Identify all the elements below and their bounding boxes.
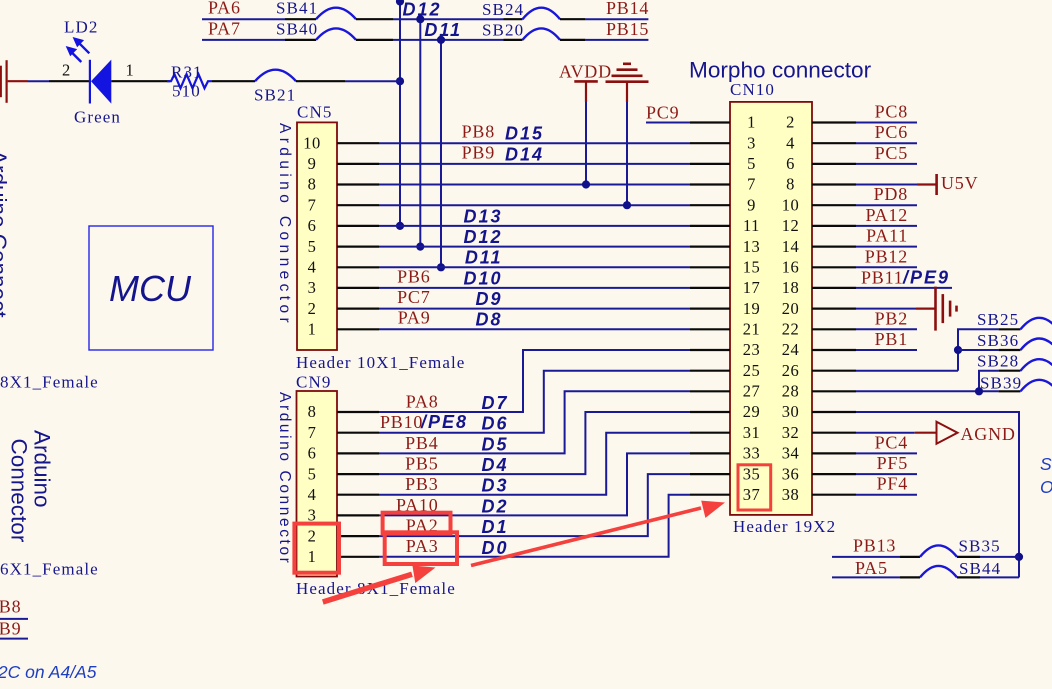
CN10 pin 35 stub xyxy=(690,473,730,475)
CN10 pin 22 stub xyxy=(812,328,856,330)
wire SB36 segment xyxy=(958,349,999,351)
svg-text:35: 35 xyxy=(743,464,761,483)
wire net D7 CN9 to CN10 xyxy=(379,350,690,412)
wire net PA12 xyxy=(856,225,917,227)
svg-text:PB9: PB9 xyxy=(462,142,495,162)
svg-text:SB35: SB35 xyxy=(959,537,1001,556)
pin stub SB20 left xyxy=(504,39,523,41)
wire net PA5 xyxy=(832,576,900,578)
power ground symbol bars xyxy=(606,64,649,82)
svg-text:PB4: PB4 xyxy=(405,433,438,453)
CN10 pin 29 stub xyxy=(690,411,730,413)
junction dot D12 vertical at CN5 pin 5 row xyxy=(416,243,424,251)
wire SB28 segment xyxy=(979,371,999,392)
wire net PB14 segment xyxy=(585,18,648,20)
wire vertical net D12 xyxy=(419,19,421,246)
CN5 pin 5 stub xyxy=(337,246,379,248)
annotation box PA3 xyxy=(385,532,457,564)
wire to power ground xyxy=(856,308,916,310)
svg-text:1: 1 xyxy=(308,320,317,339)
CN10 pin 38 stub xyxy=(812,494,856,496)
svg-text:Green: Green xyxy=(74,108,121,127)
power ground stem xyxy=(626,82,628,102)
svg-text:D10: D10 xyxy=(463,268,502,288)
svg-text:D3: D3 xyxy=(481,476,508,496)
CN10 pin 20 stub xyxy=(812,308,856,310)
svg-text:14: 14 xyxy=(782,237,800,256)
CN10 pin 13 stub xyxy=(690,246,730,248)
svg-text:D4: D4 xyxy=(481,455,508,475)
svg-text:PC5: PC5 xyxy=(875,143,908,163)
wire CN10 pin27 row xyxy=(856,390,999,392)
svg-text:8: 8 xyxy=(308,175,317,194)
junction dot D11 vertical at CN5 pin 4 row xyxy=(437,263,445,271)
svg-text:D0: D0 xyxy=(481,538,508,558)
svg-text:19: 19 xyxy=(743,299,761,318)
CN5 pin 7 stub xyxy=(337,204,379,206)
wire vertical net D13 xyxy=(399,0,401,226)
svg-text:Arduino Connector: Arduino Connector xyxy=(276,392,293,565)
svg-text:U5V: U5V xyxy=(941,173,978,193)
CN10 pin 26 stub xyxy=(812,370,856,372)
wire net D0 CN9 to CN10 xyxy=(379,495,690,557)
svg-text:PC6: PC6 xyxy=(875,122,908,142)
svg-text:Arduino Connect: Arduino Connect xyxy=(0,150,11,318)
CN5 pin 3 stub xyxy=(337,287,379,289)
wire net PD8 xyxy=(856,204,917,206)
CN10 pin 23 stub xyxy=(690,349,730,351)
svg-text:29: 29 xyxy=(743,402,761,421)
CN10 pin 14 stub xyxy=(812,246,856,248)
pin stub SB39 xyxy=(999,390,1021,392)
LED LD2 cathode bar xyxy=(89,60,91,104)
svg-text:17: 17 xyxy=(743,278,761,297)
pin stub SB24 right xyxy=(560,18,585,20)
wire net PB1 xyxy=(856,349,917,351)
MCU block outline xyxy=(89,226,213,350)
solder bridge SB35 arc xyxy=(920,545,957,557)
wire net PC6 xyxy=(856,142,917,144)
wire CN10 pin29 row to right rail xyxy=(856,412,1019,577)
solder bridge SB21 arc xyxy=(255,70,296,82)
LED LD2 triangle xyxy=(91,60,111,104)
solder bridge SB41 arc xyxy=(316,8,356,20)
svg-text:25: 25 xyxy=(743,361,761,380)
CN10 pin 6 stub xyxy=(812,163,856,165)
LED LD2 emission arrow 1 xyxy=(73,37,90,53)
wire ground to pin9 row xyxy=(626,102,628,205)
pin stub SB21 right xyxy=(296,80,345,82)
solder bridge SB44 arc xyxy=(920,566,957,578)
junction dot right rail at SB35 xyxy=(1015,553,1023,561)
svg-text:30: 30 xyxy=(782,402,800,421)
CN10 pin 7 stub xyxy=(690,183,730,185)
CN9 pin 6 stub xyxy=(337,452,379,454)
svg-text:PA7: PA7 xyxy=(208,18,241,38)
svg-text:PB12: PB12 xyxy=(865,246,908,266)
solder bridge SB20 arc xyxy=(523,28,561,40)
svg-text:10: 10 xyxy=(782,195,800,214)
svg-text:1: 1 xyxy=(308,547,317,566)
svg-text:5: 5 xyxy=(308,464,317,483)
solder bridge SB28 arc xyxy=(1021,359,1052,371)
svg-text:PB15: PB15 xyxy=(606,19,649,39)
power port AVDD bar xyxy=(574,80,598,83)
pin stub SB28 xyxy=(999,370,1021,372)
CN9 pin 8 stub xyxy=(337,411,379,413)
CN5 pin 9 stub xyxy=(337,163,379,165)
CN10 pin 30 stub xyxy=(812,411,856,413)
svg-text:37: 37 xyxy=(743,485,761,504)
CN10 pin 3 stub xyxy=(690,142,730,144)
wire vertical SB25/SB36 xyxy=(958,329,999,370)
CN10 pin 8 stub xyxy=(812,183,856,185)
svg-text:SB40: SB40 xyxy=(276,19,318,38)
svg-text:8: 8 xyxy=(308,402,317,421)
CN10 pin 32 stub xyxy=(812,432,856,434)
wire net PB11/PE9 xyxy=(856,287,952,289)
wire dark red to AGND xyxy=(915,432,937,434)
wire net D6 CN9 to CN10 xyxy=(379,371,690,433)
power ground symbol right xyxy=(936,287,957,331)
svg-text:510: 510 xyxy=(172,82,201,101)
svg-text:SB41: SB41 xyxy=(276,0,318,18)
svg-text:PB11: PB11 xyxy=(861,268,904,288)
svg-text:27: 27 xyxy=(743,382,761,401)
junction dot D13 vertical at CN5 pin 6 row xyxy=(396,222,404,230)
CN10 pin 9 stub xyxy=(690,204,730,206)
svg-text:LD2: LD2 xyxy=(64,18,98,37)
svg-text:12: 12 xyxy=(782,216,800,235)
wire to U5V xyxy=(856,184,917,186)
svg-text:Arduino: Arduino xyxy=(30,430,55,508)
annotation box CN10 pins 35-37 xyxy=(738,465,771,510)
svg-text:36: 36 xyxy=(782,464,800,483)
CN9 pin 1 stub xyxy=(337,556,379,558)
svg-text:PB14: PB14 xyxy=(606,0,649,18)
svg-text:24: 24 xyxy=(782,340,800,359)
svg-text:18: 18 xyxy=(782,278,800,297)
svg-text:8X1_Female: 8X1_Female xyxy=(0,373,99,392)
wire AVDD to pin7 row xyxy=(585,102,587,185)
svg-text:D6: D6 xyxy=(481,414,508,434)
power port AVDD stem xyxy=(585,81,587,102)
CN9 pin 4 stub xyxy=(337,494,379,496)
capacitor plate (cut at edge) xyxy=(0,66,2,98)
svg-text:Arduino Connector: Arduino Connector xyxy=(276,123,293,327)
svg-text:2: 2 xyxy=(786,113,795,132)
wire net PC5 xyxy=(856,163,917,165)
wire vertical net D11 xyxy=(440,40,442,267)
svg-text:2: 2 xyxy=(308,526,317,545)
svg-text:PC8: PC8 xyxy=(875,102,908,122)
wire blue segment xyxy=(28,80,49,82)
wire net D9 CN5 to CN10 xyxy=(379,266,690,268)
svg-text:D9: D9 xyxy=(475,289,502,309)
svg-text:PB10: PB10 xyxy=(380,412,423,432)
wire dark red from capacitor xyxy=(8,80,28,82)
wire to AGND xyxy=(856,432,915,434)
svg-text:D1: D1 xyxy=(481,517,508,537)
svg-text:32: 32 xyxy=(782,423,800,442)
solder bridge SB36 arc xyxy=(1021,339,1052,351)
wire net PB13 xyxy=(832,556,900,558)
wire net D12 segment xyxy=(393,18,504,20)
wire net D12 CN5 to CN10 xyxy=(379,204,690,206)
svg-text:2: 2 xyxy=(308,299,317,318)
CN10 pin 21 stub xyxy=(690,328,730,330)
svg-text:7: 7 xyxy=(308,195,317,214)
svg-text:34: 34 xyxy=(782,444,800,463)
svg-text:7: 7 xyxy=(308,423,317,442)
svg-text:D12: D12 xyxy=(463,227,502,247)
power port U5V bar xyxy=(935,174,938,195)
svg-text:PA12: PA12 xyxy=(865,205,908,225)
junction dot D13 vertical at LED wire xyxy=(396,77,404,85)
solder bridge SB25 arc xyxy=(1021,318,1052,330)
svg-text:PB5: PB5 xyxy=(405,454,438,474)
CN10 pin 34 stub xyxy=(812,452,856,454)
CN10 pin 31 stub xyxy=(690,432,730,434)
svg-text:7: 7 xyxy=(747,175,756,194)
CN10 pin 15 stub xyxy=(690,266,730,268)
svg-text:13: 13 xyxy=(743,237,761,256)
wire net D6 CN5 to CN10 xyxy=(379,328,690,330)
svg-text:PC4: PC4 xyxy=(875,432,908,452)
svg-text:38: 38 xyxy=(782,485,800,504)
svg-text:PB8: PB8 xyxy=(0,597,21,617)
CN9 pin 5 stub xyxy=(337,473,379,475)
svg-text:D15: D15 xyxy=(505,124,544,144)
wire SB21 to D13 vertical xyxy=(345,80,400,82)
junction dot ground xyxy=(623,201,631,209)
pin stub SB24 left xyxy=(504,18,523,20)
CN10 pin 17 stub xyxy=(690,287,730,289)
svg-text:Morpho connector: Morpho connector xyxy=(689,58,872,83)
pin stub SB20 right xyxy=(560,39,585,41)
svg-text:PB9: PB9 xyxy=(0,619,21,639)
connector CN5 body xyxy=(297,122,337,350)
pin stub SB35 left xyxy=(900,556,920,558)
svg-text:SB25: SB25 xyxy=(977,310,1019,329)
svg-text:3: 3 xyxy=(308,278,317,297)
wire net D14 CN5 to CN10 xyxy=(379,163,690,165)
wire LED to R31 xyxy=(111,80,170,82)
CN10 pin 37 stub xyxy=(690,494,730,496)
CN10 pin 11 stub xyxy=(690,225,730,227)
svg-text:Header 19X2: Header 19X2 xyxy=(733,517,836,536)
svg-text:26: 26 xyxy=(782,361,800,380)
svg-text:9: 9 xyxy=(308,154,317,173)
svg-text:20: 20 xyxy=(782,299,800,318)
CN10 pin 24 stub xyxy=(812,349,856,351)
wire net PA6/SB41 segment xyxy=(202,18,285,20)
wire net D13 CN5 to CN10 xyxy=(379,184,690,186)
wire net PA11 xyxy=(856,246,917,248)
wire net D11 segment xyxy=(393,39,504,41)
CN10 pin 2 stub xyxy=(812,121,856,123)
svg-text:PB6: PB6 xyxy=(397,266,430,286)
svg-text:SB36: SB36 xyxy=(977,331,1019,350)
svg-text:PA3: PA3 xyxy=(406,536,439,556)
CN10 pin 12 stub xyxy=(812,225,856,227)
svg-text:22: 22 xyxy=(782,320,800,339)
svg-text:PB1: PB1 xyxy=(875,329,908,349)
CN10 pin 25 stub xyxy=(690,370,730,372)
svg-text:D14: D14 xyxy=(505,144,544,164)
CN10 pin 28 stub xyxy=(812,390,856,392)
wire net D7 CN5 to CN10 xyxy=(379,308,690,310)
connector CN9 body xyxy=(297,391,338,577)
annotation box CN9 pins 1-2 xyxy=(294,524,339,573)
svg-text:CN5: CN5 xyxy=(297,103,332,122)
CN5 pin 1 stub xyxy=(337,328,379,330)
svg-text:21: 21 xyxy=(743,320,761,339)
CN9 pin 7 stub xyxy=(337,432,379,434)
svg-text:PF5: PF5 xyxy=(877,453,908,473)
wire net D4 CN9 to CN10 xyxy=(379,412,690,474)
wire net B8 (cut) xyxy=(0,618,28,620)
wire net D11 CN5 to CN10 xyxy=(379,225,690,227)
svg-text:AGND: AGND xyxy=(961,424,1016,444)
svg-text:6: 6 xyxy=(308,444,317,463)
svg-text:PA9: PA9 xyxy=(398,308,431,328)
capacitor plate 2 (cut at edge) xyxy=(5,60,7,103)
wire net D2 CN9 to CN10 xyxy=(379,453,690,515)
resistor R31 zigzag xyxy=(167,74,212,88)
svg-text:SB39: SB39 xyxy=(980,373,1022,392)
pin stub SB40 right xyxy=(356,39,393,41)
pin stub SB41 left xyxy=(285,18,316,20)
pin stub SB35 right xyxy=(957,556,980,558)
svg-text:CN9: CN9 xyxy=(296,373,331,392)
svg-text:PA11: PA11 xyxy=(866,226,908,246)
wire net PC4 xyxy=(856,452,917,454)
wire R31 to SB21 xyxy=(212,80,255,82)
svg-text:31: 31 xyxy=(743,423,761,442)
svg-text:4: 4 xyxy=(308,485,317,504)
svg-text:28: 28 xyxy=(782,382,800,401)
CN9 pin 2 stub xyxy=(337,535,379,537)
pin stub SB44 left xyxy=(900,576,920,578)
wire CN10 pin23 row to SB vertical xyxy=(856,370,958,372)
junction dot SB36 tap xyxy=(954,346,962,354)
junction dot top of D13 vertical xyxy=(396,0,404,6)
svg-text:CN10: CN10 xyxy=(730,80,775,99)
CN10 pin 18 stub xyxy=(812,287,856,289)
svg-text:/PE9: /PE9 xyxy=(902,268,950,288)
svg-text:6: 6 xyxy=(308,216,317,235)
wire net D15 CN5 to CN10 xyxy=(379,142,690,144)
wire net B9 (cut) xyxy=(0,638,28,640)
svg-text:AVDD: AVDD xyxy=(559,62,612,82)
svg-text:PD8: PD8 xyxy=(874,184,908,204)
svg-text:9: 9 xyxy=(747,195,756,214)
svg-text:SB21: SB21 xyxy=(254,86,296,105)
pin stub SB40 left xyxy=(285,39,316,41)
wire dark red to ground xyxy=(916,308,935,310)
svg-text:D5: D5 xyxy=(481,434,508,454)
svg-text:2: 2 xyxy=(62,61,71,80)
svg-text:D8: D8 xyxy=(475,310,502,330)
svg-text:8: 8 xyxy=(786,175,795,194)
junction dot SB39 tap xyxy=(975,387,983,395)
svg-text:11: 11 xyxy=(743,216,760,235)
svg-text:PF4: PF4 xyxy=(877,474,908,494)
svg-text:I2C on A4/A5: I2C on A4/A5 xyxy=(0,662,97,682)
CN10 pin 4 stub xyxy=(812,142,856,144)
CN10 pin 16 stub xyxy=(812,266,856,268)
svg-text:4: 4 xyxy=(308,258,317,277)
junction dot D12 vertical top xyxy=(416,15,424,23)
svg-text:5: 5 xyxy=(747,154,756,173)
CN10 pin 33 stub xyxy=(690,452,730,454)
annotation box PA2 xyxy=(383,513,451,534)
annotation arrow to CN10 pin 37 xyxy=(471,501,725,566)
power port AGND arrow xyxy=(937,422,958,444)
svg-text:Connector: Connector xyxy=(7,439,32,543)
svg-text:10: 10 xyxy=(303,133,321,152)
svg-text:PA6: PA6 xyxy=(208,0,241,18)
svg-text:Header 8X1_Female: Header 8X1_Female xyxy=(296,579,456,598)
junction dot AVDD xyxy=(582,180,590,188)
svg-text:SB: SB xyxy=(1040,454,1052,474)
svg-text:Header 10X1_Female: Header 10X1_Female xyxy=(296,353,465,372)
CN5 pin 8 stub xyxy=(337,183,379,185)
connector CN10 body xyxy=(730,102,812,515)
svg-text:SB24: SB24 xyxy=(482,0,524,19)
wire net PF4 xyxy=(856,494,917,496)
annotation arrow to PA3 xyxy=(323,566,436,603)
svg-text:D7: D7 xyxy=(481,393,508,413)
wire net D3 CN9 to CN10 xyxy=(379,433,690,495)
wire net PC8 xyxy=(856,122,917,124)
svg-text:1: 1 xyxy=(126,61,135,80)
svg-text:R31: R31 xyxy=(171,63,203,82)
solder bridge SB39 arc xyxy=(1021,380,1052,392)
wire net PB2 xyxy=(856,328,917,330)
svg-text:6: 6 xyxy=(786,154,795,173)
CN5 pin 4 stub xyxy=(337,266,379,268)
svg-text:16: 16 xyxy=(782,258,800,277)
CN10 pin 5 stub xyxy=(690,163,730,165)
wire net PB12 xyxy=(856,266,917,268)
wire SB35 to rail xyxy=(980,556,1019,558)
svg-text:PC9: PC9 xyxy=(646,103,679,123)
CN10 pin 19 stub xyxy=(690,308,730,310)
pin stub SB41 right xyxy=(356,18,393,20)
svg-text:PA8: PA8 xyxy=(406,391,439,411)
CN5 pin 6 stub xyxy=(337,225,379,227)
svg-text:1: 1 xyxy=(747,113,756,132)
wire dark red to U5V xyxy=(917,183,936,185)
svg-text:PB13: PB13 xyxy=(853,536,896,556)
svg-text:SB28: SB28 xyxy=(977,352,1019,371)
svg-text:SB20: SB20 xyxy=(482,21,524,40)
svg-text:15: 15 xyxy=(743,258,761,277)
pin stub SB36 xyxy=(999,349,1021,351)
wire net PA7/SB40 segment xyxy=(202,39,285,41)
svg-text:PB3: PB3 xyxy=(405,474,438,494)
CN10 pin 36 stub xyxy=(812,473,856,475)
CN10 pin 27 stub xyxy=(690,390,730,392)
svg-text:5: 5 xyxy=(308,237,317,256)
svg-text:D13: D13 xyxy=(463,206,502,226)
wire net D1 CN9 to CN10 xyxy=(379,474,690,536)
CN5 pin 2 stub xyxy=(337,308,379,310)
wire net PF5 xyxy=(856,473,917,475)
CN10 pin 10 stub xyxy=(812,204,856,206)
